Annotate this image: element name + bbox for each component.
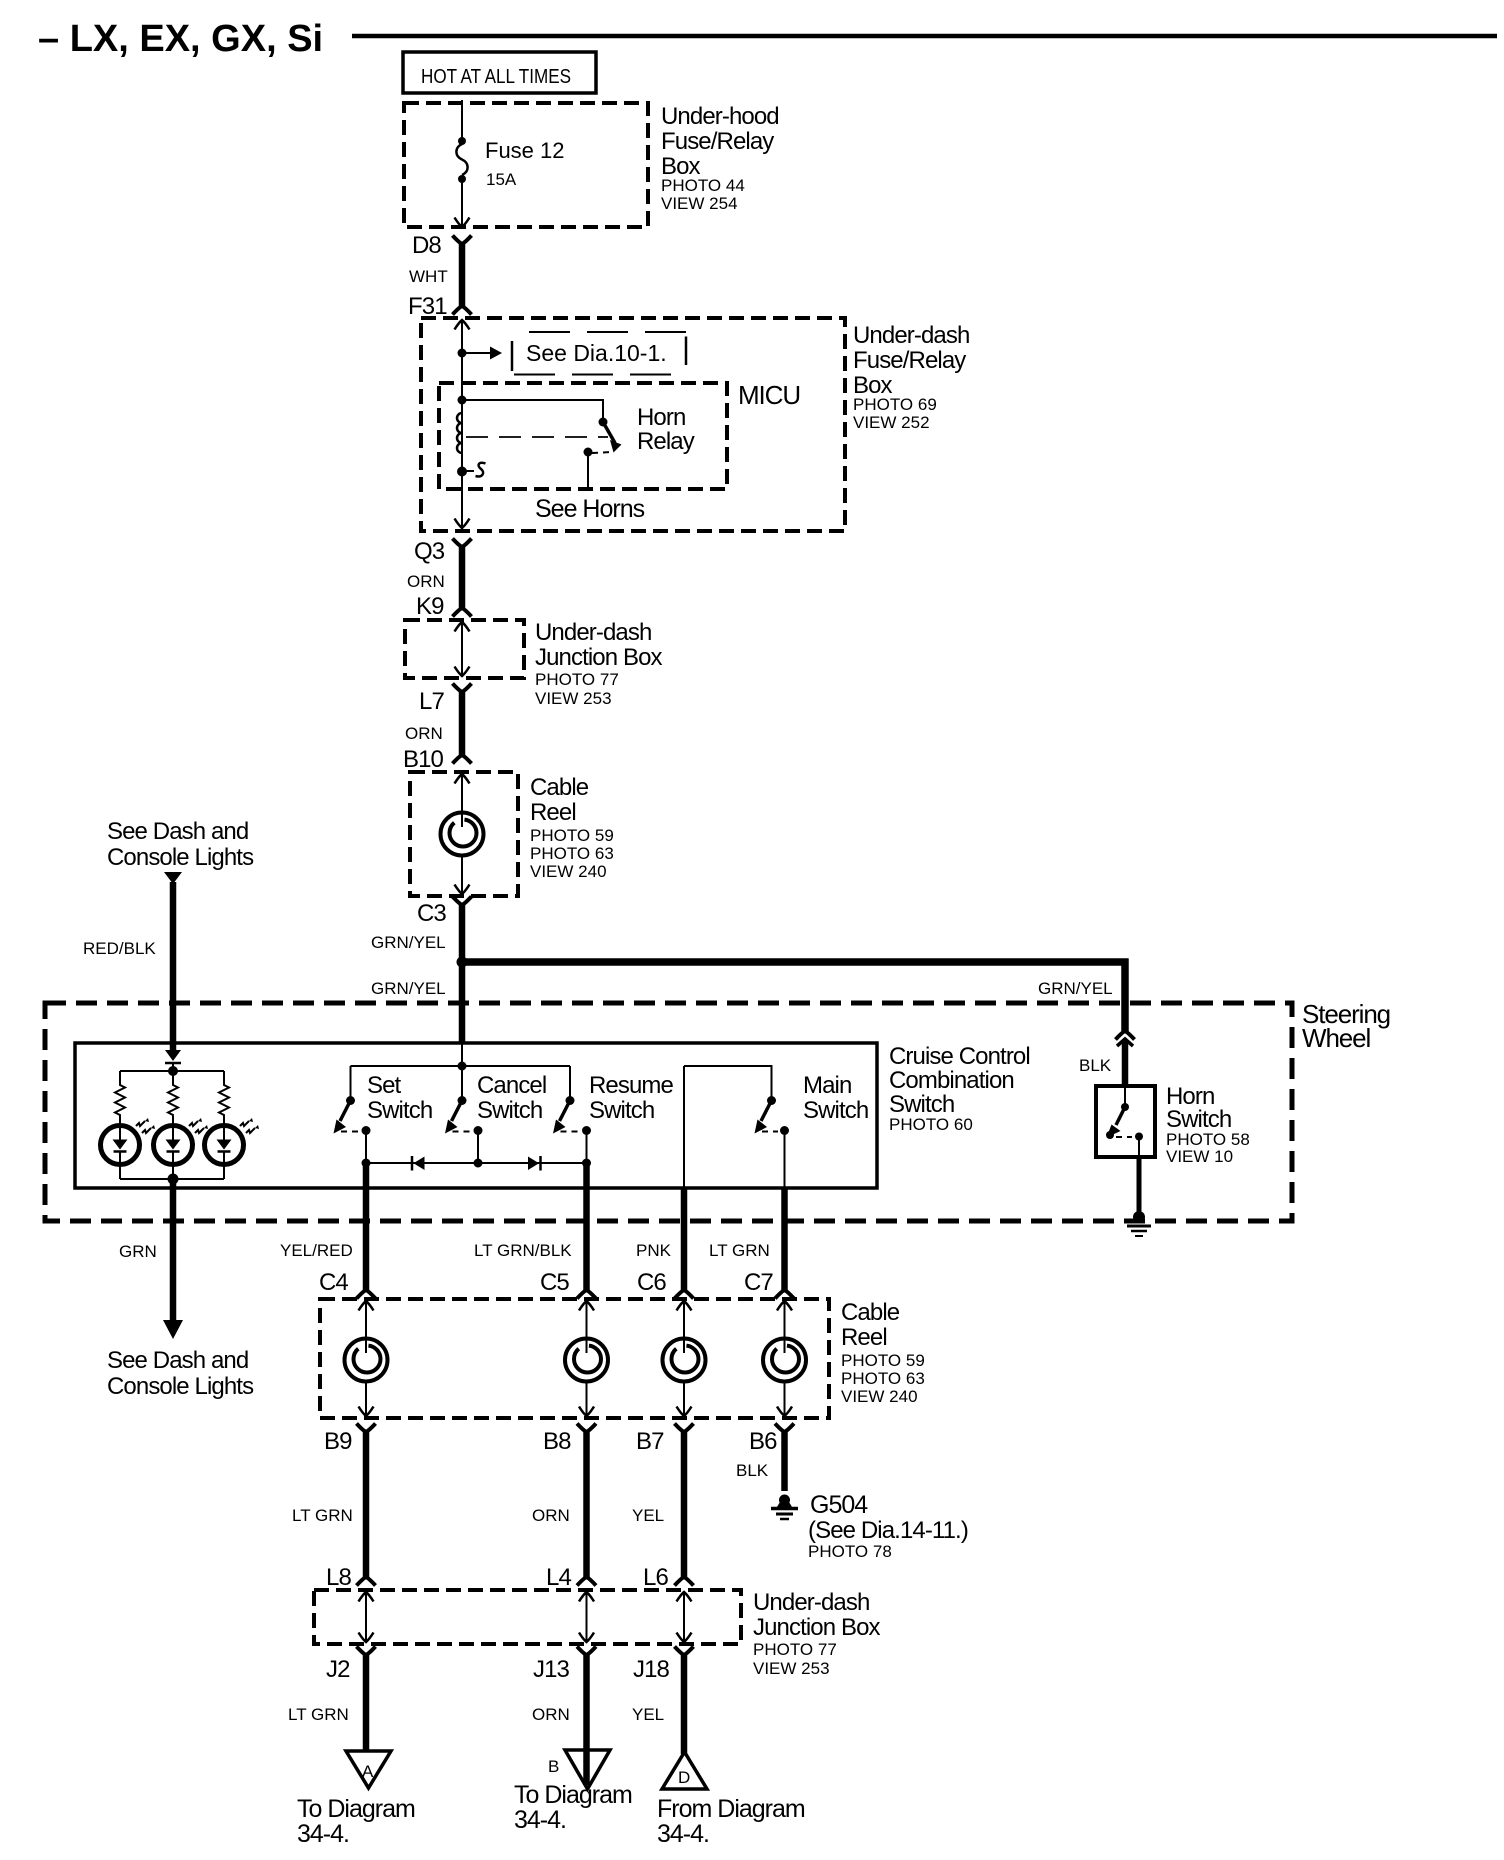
connector L4 fork <box>577 1577 596 1586</box>
svg-text:Fuse/Relay: Fuse/Relay <box>853 347 966 374</box>
svg-text:ORN: ORN <box>532 1705 570 1724</box>
ground at horn switch <box>1127 1211 1151 1236</box>
wire from fuse to box edge <box>461 179 463 226</box>
svg-text:34-4.: 34-4. <box>297 1820 349 1848</box>
connector B6 fork <box>775 1424 794 1433</box>
LED 3 <box>205 1118 260 1165</box>
coil lower node dot <box>457 467 467 477</box>
svg-text:J18: J18 <box>633 1656 670 1683</box>
node to See Dia.10-1 <box>458 349 467 358</box>
connector B10 fork <box>453 755 472 764</box>
connector B8 fork <box>577 1424 596 1433</box>
connector B7 fork <box>675 1424 694 1433</box>
arrow entering under-dash box <box>455 320 470 330</box>
node switch rail <box>458 1062 467 1071</box>
arrow exiting junction box <box>455 667 470 677</box>
horn switch pole wire <box>1124 1086 1126 1104</box>
svg-text:ORN: ORN <box>405 724 443 743</box>
svg-text:Console Lights: Console Lights <box>107 1373 254 1400</box>
LED 1 <box>101 1118 156 1165</box>
cancel switch blade <box>445 1101 462 1134</box>
svg-text:WHT: WHT <box>409 267 448 286</box>
wire to horn relay contact <box>462 400 603 419</box>
svg-text:Fuse 12: Fuse 12 <box>485 138 565 163</box>
svg-text:Switch: Switch <box>889 1091 954 1118</box>
svg-text:GRN: GRN <box>119 1242 157 1261</box>
junction box column L8-J2 <box>359 1591 374 1642</box>
svg-text:Relay: Relay <box>637 428 695 455</box>
connector J2 fork <box>357 1647 376 1656</box>
svg-text:Console Lights: Console Lights <box>107 844 254 871</box>
resume switch output dot <box>582 1126 591 1135</box>
wire ORN J13 to B <box>583 1655 590 1785</box>
svg-text:VIEW 253: VIEW 253 <box>535 689 612 708</box>
svg-text:Resume: Resume <box>589 1072 674 1099</box>
cable reel column C4-B9 <box>359 1300 374 1416</box>
wire ORN L7-B10 <box>459 692 466 755</box>
wire GRN/YEL into switch rail <box>461 1043 463 1066</box>
illumination diode at RED/BLK entry <box>165 1050 181 1071</box>
connector C7 fork <box>775 1290 794 1299</box>
svg-text:Reel: Reel <box>841 1324 887 1351</box>
cancel switch pole wire <box>461 1066 463 1097</box>
svg-text:A: A <box>362 1762 374 1781</box>
wire BLK B6 to ground <box>781 1432 788 1491</box>
MICU box <box>439 383 727 489</box>
svg-text:Q3: Q3 <box>414 538 445 565</box>
resistor R1 <box>115 1071 125 1125</box>
junction box column L6-J18 <box>677 1591 692 1642</box>
label Cancel Switch <box>477 1072 546 1124</box>
svg-text:F31: F31 <box>408 293 447 320</box>
svg-text:PHOTO 63: PHOTO 63 <box>841 1369 925 1388</box>
horn switch dashed throw <box>1116 1136 1132 1138</box>
arrow exiting under-dash box <box>455 519 470 529</box>
svg-text:Main: Main <box>803 1072 851 1099</box>
svg-text:B7: B7 <box>636 1428 664 1455</box>
under-dash junction box 1 <box>405 620 524 678</box>
S stub <box>462 463 486 477</box>
svg-text:PHOTO 77: PHOTO 77 <box>535 670 619 689</box>
label under-hood fuse/relay box <box>661 103 779 213</box>
svg-text:PHOTO 59: PHOTO 59 <box>530 826 614 845</box>
arrow from dash lights <box>164 872 182 884</box>
main switch dashed throw <box>762 1131 778 1133</box>
wire ORN B8-L4 <box>583 1432 590 1577</box>
svg-text:Switch: Switch <box>803 1097 868 1124</box>
wire horn switch to ground <box>1138 1137 1140 1158</box>
cable reel column C5-B8 <box>579 1300 594 1416</box>
node LED bus bottom <box>168 1174 179 1185</box>
svg-text:15A: 15A <box>486 170 517 189</box>
cable reel coil 1 <box>441 813 484 856</box>
wire LED top rail <box>120 1070 224 1072</box>
resume switch pole wire <box>569 1066 571 1097</box>
svg-text:GRN/YEL: GRN/YEL <box>371 979 446 998</box>
wire RED/BLK <box>170 882 177 1050</box>
cable reel box 1 <box>410 772 518 896</box>
svg-text:K9: K9 <box>416 593 444 620</box>
svg-text:See Dash and: See Dash and <box>107 818 248 845</box>
svg-text:MICU: MICU <box>738 380 800 410</box>
svg-text:J13: J13 <box>533 1656 570 1683</box>
arrow entering junction box <box>455 622 470 632</box>
wire into reel coil <box>461 773 463 827</box>
main switch contact dot <box>767 1096 776 1105</box>
svg-text:L8: L8 <box>326 1564 351 1591</box>
svg-text:See Dia.10-1.: See Dia.10-1. <box>526 340 667 366</box>
connector L7 fork <box>453 684 472 693</box>
main switch top link <box>684 1066 772 1097</box>
wire YEL/RED to C4 <box>363 1163 370 1290</box>
wire YEL J18 to D <box>681 1655 688 1754</box>
fuse Fuse 12 15A <box>456 138 564 189</box>
svg-text:B8: B8 <box>543 1428 571 1455</box>
horn relay blade <box>603 422 622 453</box>
svg-text:See Horns: See Horns <box>535 495 645 523</box>
svg-text:Fuse/Relay: Fuse/Relay <box>661 128 774 155</box>
svg-text:B: B <box>548 1757 559 1776</box>
label See Dash and Console Lights bottom <box>107 1347 254 1400</box>
connector J13 fork <box>577 1647 596 1656</box>
connector F31 fork <box>453 306 472 315</box>
off-page connector B <box>548 1750 610 1789</box>
svg-text:– LX, EX, GX, Si: – LX, EX, GX, Si <box>38 18 323 60</box>
svg-text:Wheel: Wheel <box>1302 1023 1371 1053</box>
diode D1 pointing left <box>412 1156 425 1171</box>
arrow at under-hood box exit <box>455 218 470 228</box>
label under-dash junction box 2 <box>753 1589 881 1678</box>
svg-text:C3: C3 <box>417 900 446 927</box>
wire LT GRN B9-L8 <box>363 1432 370 1577</box>
node diode rail right <box>582 1159 591 1168</box>
cancel switch dashed throw <box>453 1131 471 1133</box>
off-page connector A <box>346 1751 391 1788</box>
svg-text:Switch: Switch <box>1166 1106 1231 1133</box>
set switch contact dot <box>346 1096 355 1105</box>
LED 2 <box>154 1118 209 1165</box>
svg-text:PHOTO 78: PHOTO 78 <box>808 1542 892 1561</box>
cable reel coil 3 <box>565 1339 608 1382</box>
svg-text:Junction Box: Junction Box <box>535 644 663 671</box>
svg-text:See Dash and: See Dash and <box>107 1347 248 1374</box>
wire ORN Q3-K9 <box>459 547 466 608</box>
label Horn Switch <box>1166 1083 1250 1166</box>
See Dia.10-1. reference box <box>512 332 686 375</box>
svg-text:Combination: Combination <box>889 1067 1014 1094</box>
svg-text:To Diagram: To Diagram <box>297 1795 415 1823</box>
svg-text:Under-dash: Under-dash <box>853 322 969 349</box>
node LED bus top <box>168 1066 178 1076</box>
arrow wire to See Dia.10-1 <box>462 347 502 360</box>
svg-text:L6: L6 <box>643 1564 668 1591</box>
wire GRN/YEL down to horn connector <box>1121 959 1129 1032</box>
svg-text:Junction Box: Junction Box <box>753 1614 881 1641</box>
wire BLK to horn switch <box>1122 1040 1129 1086</box>
horn relay fixed contact dot <box>599 418 608 427</box>
svg-text:Under-dash: Under-dash <box>753 1589 869 1616</box>
horn connector arrow lower <box>1117 1039 1133 1046</box>
svg-text:G504: G504 <box>810 1491 868 1519</box>
label Steering Wheel <box>1302 999 1390 1053</box>
horn relay dashed throw link <box>592 452 612 453</box>
wire horn relay output <box>587 452 589 489</box>
svg-text:B9: B9 <box>324 1428 352 1455</box>
cable reel column C6-B7 <box>677 1300 692 1416</box>
svg-text:PHOTO 59: PHOTO 59 <box>841 1351 925 1370</box>
set switch output dot <box>362 1126 371 1135</box>
horn relay coil <box>457 413 462 453</box>
svg-text:BLK: BLK <box>736 1461 769 1480</box>
horn switch output dot <box>1135 1133 1143 1141</box>
fuse F12 terminal dot <box>458 137 466 145</box>
svg-text:VIEW 240: VIEW 240 <box>530 862 607 881</box>
wire switch feed rail <box>351 1065 571 1067</box>
wire main switch output <box>784 1131 786 1189</box>
wire GRN/YEL horizontal to horn <box>462 958 1129 966</box>
connector C3 fork <box>453 897 472 906</box>
svg-text:VIEW 254: VIEW 254 <box>661 194 738 213</box>
connector Q3 fork <box>453 539 472 548</box>
node diode rail center <box>474 1159 483 1168</box>
svg-text:RED/BLK: RED/BLK <box>83 939 156 958</box>
svg-text:Switch: Switch <box>477 1097 542 1124</box>
resume switch blade <box>553 1101 570 1134</box>
wire LT GRN to C7 <box>781 1188 788 1290</box>
wire diode rail <box>366 1162 587 1164</box>
wire LED bottom rail <box>119 1165 121 1179</box>
svg-text:PNK: PNK <box>636 1241 672 1260</box>
resistor R2 <box>168 1071 178 1125</box>
main switch pole wire to C6 <box>683 1066 685 1188</box>
junction box column L4-J13 <box>579 1591 594 1642</box>
label under-dash fuse/relay box <box>853 322 969 432</box>
label Resume Switch <box>589 1072 674 1124</box>
svg-text:YEL/RED: YEL/RED <box>280 1241 353 1260</box>
under-dash fuse/relay box <box>421 318 845 531</box>
svg-text:VIEW 253: VIEW 253 <box>753 1659 830 1678</box>
wire WHT D8-F31 <box>459 244 466 306</box>
wire through junction box <box>461 621 463 675</box>
cable reel coil 2 <box>345 1339 388 1382</box>
wire YEL B7-L6 <box>681 1432 688 1577</box>
svg-text:(See Dia.14-11.): (See Dia.14-11.) <box>808 1517 968 1544</box>
cable reel column C7-B6 <box>777 1300 792 1416</box>
wire out of reel coil <box>461 856 463 893</box>
svg-text:34-4.: 34-4. <box>514 1806 566 1834</box>
svg-text:From Diagram: From Diagram <box>657 1795 805 1823</box>
label cable reel 2 <box>841 1299 925 1406</box>
connector K9 fork <box>453 608 472 617</box>
resistor R3 <box>219 1071 229 1125</box>
svg-text:BLK: BLK <box>1079 1056 1112 1075</box>
svg-text:VIEW 252: VIEW 252 <box>853 413 930 432</box>
under-hood fuse/relay box <box>404 103 648 227</box>
svg-text:L7: L7 <box>419 688 444 715</box>
cable reel box 2 <box>320 1299 829 1418</box>
set switch dashed throw <box>341 1131 359 1133</box>
svg-text:LT GRN: LT GRN <box>709 1241 770 1260</box>
svg-text:PHOTO 44: PHOTO 44 <box>661 176 745 195</box>
horn switch blade <box>1106 1107 1125 1139</box>
svg-text:Switch: Switch <box>367 1097 432 1124</box>
connector C4 fork <box>357 1290 376 1299</box>
wire into fuse <box>461 100 463 141</box>
main switch blade <box>755 1101 772 1134</box>
connector C6 fork <box>675 1290 694 1299</box>
svg-text:34-4.: 34-4. <box>657 1820 709 1848</box>
svg-text:ORN: ORN <box>407 572 445 591</box>
svg-text:C4: C4 <box>319 1269 348 1296</box>
arrow entering cable reel <box>455 774 470 784</box>
svg-text:GRN/YEL: GRN/YEL <box>371 933 446 952</box>
svg-text:HOT AT ALL TIMES: HOT AT ALL TIMES <box>421 66 571 88</box>
label cruise control combination switch <box>889 1043 1030 1134</box>
svg-text:Cancel: Cancel <box>477 1072 546 1099</box>
svg-text:C6: C6 <box>637 1269 666 1296</box>
arrow exiting cable reel <box>455 885 470 895</box>
svg-text:B10: B10 <box>403 746 444 773</box>
cancel switch contact dot <box>458 1096 467 1105</box>
wire LT GRN J2 to A <box>363 1655 370 1751</box>
svg-text:YEL: YEL <box>632 1705 664 1724</box>
connector L8 fork <box>357 1577 376 1586</box>
svg-text:Set: Set <box>367 1072 402 1099</box>
wire through under-dash box <box>461 320 463 527</box>
cable reel coil 5 <box>763 1339 806 1382</box>
horn relay throw dot <box>584 448 593 457</box>
wire LT GRN/BLK to C5 <box>583 1163 590 1290</box>
under-dash junction box 2 <box>314 1590 741 1644</box>
svg-text:C5: C5 <box>540 1269 569 1296</box>
connector D8 fork <box>453 236 472 245</box>
svg-text:Reel: Reel <box>530 799 576 826</box>
resume switch dashed throw <box>561 1131 579 1133</box>
svg-text:LT GRN: LT GRN <box>288 1705 349 1724</box>
cable reel coil 4 <box>663 1339 706 1382</box>
svg-text:Cable: Cable <box>530 774 589 801</box>
steering wheel box <box>45 1003 1292 1221</box>
svg-text:Cable: Cable <box>841 1299 900 1326</box>
svg-text:Horn: Horn <box>637 404 685 431</box>
wire resume switch to diode rail <box>586 1131 588 1164</box>
diode D2 pointing right <box>528 1156 541 1171</box>
node diode rail left <box>362 1159 371 1168</box>
arrow to dash lights <box>163 1320 183 1339</box>
label Main Switch <box>803 1072 868 1124</box>
node GRN/YEL split <box>457 957 468 968</box>
svg-text:YEL: YEL <box>632 1506 664 1525</box>
svg-text:To Diagram: To Diagram <box>514 1781 632 1809</box>
label Set Switch <box>367 1072 432 1124</box>
fuse lower terminal dot <box>458 175 466 183</box>
horn switch contact dot <box>1121 1103 1129 1111</box>
cancel switch output dot <box>474 1126 483 1135</box>
connector L6 fork <box>675 1577 694 1586</box>
label From Diagram 34-4 D <box>657 1795 805 1848</box>
svg-text:LT GRN/BLK: LT GRN/BLK <box>474 1241 572 1260</box>
connector C5 fork <box>577 1290 596 1299</box>
svg-text:B6: B6 <box>749 1428 777 1455</box>
wire PNK to C6 <box>681 1188 688 1290</box>
svg-text:Under-hood: Under-hood <box>661 103 779 130</box>
svg-text:C7: C7 <box>744 1269 773 1296</box>
cruise control combination switch box <box>75 1043 877 1188</box>
label G504 <box>808 1491 968 1561</box>
HOT AT ALL TIMES box <box>403 52 596 93</box>
svg-text:GRN/YEL: GRN/YEL <box>1038 979 1113 998</box>
wire cancel switch to diode rail <box>477 1131 479 1164</box>
title: LX, EX, GX, Si <box>38 18 1497 60</box>
svg-text:Under-dash: Under-dash <box>535 619 651 646</box>
svg-text:D: D <box>678 1768 690 1787</box>
label See Dash and Console Lights top <box>107 818 254 871</box>
svg-text:PHOTO 69: PHOTO 69 <box>853 395 937 414</box>
label To Diagram 34-4 B <box>514 1781 632 1834</box>
resume switch contact dot <box>566 1096 575 1105</box>
horn connector fork upper <box>1116 1031 1135 1040</box>
ground G504 <box>771 1495 798 1520</box>
svg-text:PHOTO 60: PHOTO 60 <box>889 1115 973 1134</box>
svg-text:PHOTO 63: PHOTO 63 <box>530 844 614 863</box>
horn switch box <box>1096 1086 1155 1157</box>
wire set switch to diode rail <box>365 1131 367 1164</box>
svg-text:ORN: ORN <box>532 1506 570 1525</box>
node horn relay coil top <box>458 396 467 405</box>
svg-text:Cruise Control: Cruise Control <box>889 1043 1030 1070</box>
set switch blade <box>334 1101 351 1134</box>
svg-text:D8: D8 <box>412 232 441 259</box>
set switch pole wire <box>350 1066 352 1097</box>
svg-text:VIEW 240: VIEW 240 <box>841 1387 918 1406</box>
label Horn Relay <box>637 404 695 455</box>
main switch output dot <box>780 1126 789 1135</box>
svg-text:PHOTO 77: PHOTO 77 <box>753 1640 837 1659</box>
svg-text:L4: L4 <box>546 1564 571 1591</box>
svg-text:Switch: Switch <box>589 1097 654 1124</box>
connector B9 fork <box>357 1424 376 1433</box>
label To Diagram 34-4 A <box>297 1795 415 1848</box>
label cable reel <box>530 774 614 881</box>
wire GRN down <box>170 1179 177 1321</box>
connector J18 fork <box>675 1647 694 1656</box>
svg-text:VIEW 10: VIEW 10 <box>1166 1147 1233 1166</box>
horn relay coil-contact dashed link <box>466 436 608 438</box>
svg-text:J2: J2 <box>326 1656 350 1683</box>
label under-dash junction box <box>535 619 663 708</box>
off-page connector D <box>662 1752 707 1789</box>
wire GRN/YEL C3 down <box>459 905 466 1044</box>
svg-text:LT GRN: LT GRN <box>292 1506 353 1525</box>
